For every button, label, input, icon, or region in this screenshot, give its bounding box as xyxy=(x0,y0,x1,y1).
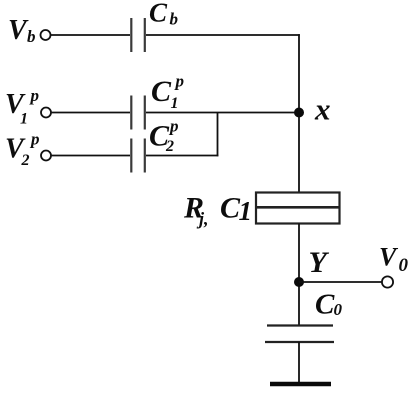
capacitor C1p xyxy=(131,96,145,130)
svg-text:C: C xyxy=(149,0,168,28)
svg-text:C: C xyxy=(315,289,335,321)
svg-text:p: p xyxy=(174,72,185,91)
svg-text:Y: Y xyxy=(309,246,330,279)
wire C1p to node x xyxy=(146,112,299,114)
wire Vb to Cb xyxy=(51,34,130,36)
wire C2p to junction riser xyxy=(146,155,218,157)
wire V2p to C2p xyxy=(51,155,130,157)
wire vertical corner to node x xyxy=(298,34,300,192)
label Vb xyxy=(8,15,36,46)
svg-text:1: 1 xyxy=(20,111,28,128)
label V1p xyxy=(5,86,39,128)
junction component Rj C1 (box with middle plate) xyxy=(256,193,340,224)
svg-text:0: 0 xyxy=(334,300,343,319)
label C1p xyxy=(151,72,184,113)
node Y xyxy=(294,277,304,287)
svg-text:b: b xyxy=(170,10,179,29)
label V2p xyxy=(5,130,40,170)
terminal Vb xyxy=(41,30,51,40)
terminal V0 xyxy=(382,276,393,287)
label C0 xyxy=(315,289,343,321)
wire C0 bottom plate to ground xyxy=(298,342,300,382)
wire node Y to V0 terminal xyxy=(299,281,382,283)
svg-text:0: 0 xyxy=(399,255,409,276)
wire Cb to top-right corner xyxy=(146,34,300,36)
ground xyxy=(270,382,331,387)
node x xyxy=(294,108,304,118)
wire riser V2p branch up to V1p branch xyxy=(217,112,219,156)
label Cb xyxy=(149,0,178,29)
label Y xyxy=(309,246,330,279)
label V0 xyxy=(379,243,409,277)
label x xyxy=(314,92,331,127)
wire box bottom to node Y and to C0 xyxy=(298,224,300,326)
terminal V2p xyxy=(41,151,51,161)
svg-text:2: 2 xyxy=(165,138,174,155)
capacitor C0 xyxy=(265,326,334,343)
svg-text:b: b xyxy=(27,27,36,46)
svg-text:x: x xyxy=(314,92,331,127)
wire V1p to C1p xyxy=(51,112,130,114)
label Rj, C1 xyxy=(183,192,252,229)
capacitor C2p xyxy=(131,139,145,173)
svg-text:V: V xyxy=(8,15,29,46)
svg-text:p: p xyxy=(168,117,179,136)
label C2p xyxy=(149,117,179,156)
svg-text:p: p xyxy=(29,130,40,149)
svg-text:1: 1 xyxy=(171,95,179,112)
capacitor Cb xyxy=(131,18,145,52)
svg-text:2: 2 xyxy=(21,152,30,169)
svg-text:1: 1 xyxy=(239,196,253,226)
svg-text:C: C xyxy=(151,75,172,108)
terminal V1p xyxy=(41,108,51,118)
svg-text:V: V xyxy=(379,243,399,272)
svg-text:p: p xyxy=(29,86,40,105)
